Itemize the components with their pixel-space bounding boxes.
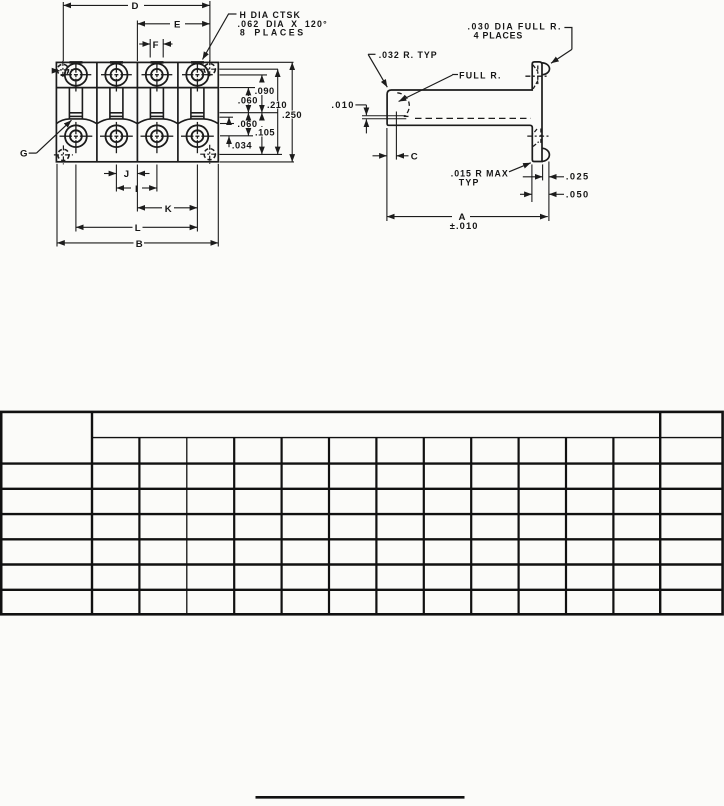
svg-text:±.010: ±.010 (450, 221, 479, 231)
svg-text:.034: .034 (232, 141, 252, 151)
svg-text:.250: .250 (282, 110, 302, 120)
svg-text:F: F (153, 40, 159, 51)
svg-text:I: I (135, 184, 138, 195)
svg-text:.025: .025 (566, 172, 590, 182)
svg-text:FULL R.: FULL R. (459, 71, 502, 81)
svg-text:B: B (136, 239, 143, 250)
svg-text:D: D (132, 1, 139, 12)
svg-text:8 PLACES: 8 PLACES (240, 28, 306, 38)
svg-text:4 PLACES: 4 PLACES (474, 30, 523, 40)
svg-text:L: L (135, 223, 141, 234)
svg-text:TYP: TYP (459, 178, 480, 188)
svg-text:.010: .010 (331, 100, 354, 110)
svg-text:.090: .090 (255, 86, 275, 96)
svg-text:E: E (174, 20, 181, 31)
svg-text:.105: .105 (255, 128, 275, 138)
svg-text:C: C (411, 152, 418, 163)
svg-text:.032 R. TYP: .032 R. TYP (379, 50, 438, 60)
svg-text:.210: .210 (267, 100, 287, 110)
svg-text:K: K (165, 204, 172, 215)
svg-text:.060: .060 (238, 96, 258, 106)
svg-text:G: G (20, 149, 28, 160)
svg-text:.050: .050 (566, 189, 590, 199)
svg-text:J: J (124, 169, 130, 180)
